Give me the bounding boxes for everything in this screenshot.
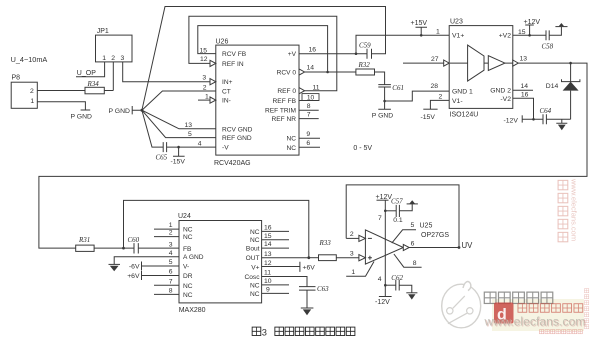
svg-text:13: 13 (520, 55, 528, 62)
svg-text:C61: C61 (392, 84, 404, 92)
svg-text:P GND: P GND (71, 114, 92, 121)
power bar P GND at node (132, 106, 140, 114)
svg-text:4: 4 (169, 250, 173, 257)
wire Bout stub pin14 (262, 247, 289, 249)
pin triangle REF IN (210, 60, 216, 66)
svg-text:10: 10 (264, 278, 272, 285)
svg-text:R33: R33 (319, 239, 332, 247)
IC U26 RCV420AG (216, 45, 299, 155)
op-amp stage 2 triangle inside U23 (488, 56, 505, 71)
power bar -12V right (521, 115, 523, 122)
resistor R33 (319, 255, 337, 261)
svg-text:14: 14 (307, 65, 315, 72)
svg-text:5: 5 (188, 131, 192, 138)
pin triangle U25 output pin6 (403, 244, 409, 250)
svg-text:C59: C59 (359, 42, 371, 50)
wire U25 pin2 (346, 237, 359, 239)
wire P8 pin2 to R34 (37, 90, 85, 92)
svg-text:RCV 0: RCV 0 (277, 70, 297, 77)
wire JP1 pin1 to U_OP (76, 62, 105, 77)
wire -V2 pin16 down (513, 98, 534, 119)
svg-text:15: 15 (264, 233, 272, 240)
power bar -12V below U25 (379, 296, 392, 298)
svg-text:www.elecfans.com: www.elecfans.com (484, 315, 586, 329)
svg-text:UV: UV (462, 241, 474, 250)
capacitor C60 (134, 243, 138, 253)
wire NC stub pin16 (262, 230, 289, 232)
svg-text:U23: U23 (450, 18, 463, 25)
svg-text:13: 13 (264, 251, 272, 258)
svg-text:2: 2 (111, 55, 115, 62)
minus sign inside U25 (368, 237, 372, 239)
ground under C64 (556, 119, 567, 123)
svg-text:+6V: +6V (303, 264, 316, 271)
svg-text:3: 3 (262, 327, 267, 337)
supply +15V (416, 27, 428, 35)
ground triangle (558, 125, 566, 131)
wire C58 to ground (549, 27, 561, 36)
svg-text:P8: P8 (12, 75, 21, 82)
svg-text:NC: NC (183, 292, 193, 299)
svg-text:C60: C60 (128, 236, 140, 244)
junction (384, 210, 387, 213)
junction (528, 34, 531, 37)
wire NC stub pin15 (262, 239, 289, 241)
wire U26 +V pin16 to C59 (299, 53, 367, 55)
wire RCV 0 to R32 (305, 71, 356, 73)
connector P8 (11, 82, 37, 108)
svg-text:REF GND: REF GND (222, 135, 252, 142)
svg-text:+15V: +15V (411, 20, 428, 27)
wire NC stub pin9 (299, 137, 320, 139)
svg-text:+12V: +12V (376, 194, 393, 201)
svg-text:7: 7 (307, 111, 311, 118)
ground triangle (408, 294, 415, 299)
capacitor C63 (299, 287, 316, 291)
svg-text:-12V: -12V (375, 299, 390, 306)
svg-text:www.elecfans.com: www.elecfans.com (570, 178, 579, 241)
IC U23 ISO124U (449, 26, 513, 109)
svg-text:NC: NC (250, 229, 260, 236)
svg-text:2: 2 (203, 85, 207, 92)
svg-text:16: 16 (264, 225, 272, 232)
svg-text:OP27GS: OP27GS (421, 232, 449, 239)
watermark elecfans logo circle (442, 282, 481, 328)
wire R31 to C60 (94, 247, 134, 249)
wire node to REF GND (142, 110, 216, 137)
wire C65 to -V pin4 (167, 146, 216, 148)
svg-text:-12V: -12V (504, 117, 519, 124)
ground P GND under C61 (378, 101, 391, 109)
IC U24 MAX280 (179, 221, 262, 303)
wire NC stub pin6 (299, 146, 320, 148)
svg-text:OUT: OUT (246, 255, 260, 262)
connector JP1 (96, 35, 133, 62)
svg-text:NC: NC (286, 136, 296, 143)
junction (383, 100, 386, 103)
wire NC stub pin9 (262, 292, 289, 294)
svg-text:DR: DR (183, 273, 193, 280)
svg-text:FB: FB (183, 246, 192, 253)
svg-text:+12V: +12V (524, 19, 541, 26)
diode D14 cathode bar (562, 63, 580, 82)
svg-text:C64: C64 (540, 107, 552, 115)
junction (307, 256, 310, 259)
svg-text:13: 13 (185, 122, 193, 129)
ground above C57 (407, 203, 418, 205)
wire node to RCV GND (142, 110, 216, 129)
svg-text:NC: NC (183, 283, 193, 290)
junction (177, 146, 180, 149)
capacitor C61 (378, 85, 391, 87)
power bar -15V under U23 (423, 108, 437, 110)
wire REF NR stub pin7 (299, 118, 319, 120)
svg-text:C58: C58 (542, 42, 554, 50)
svg-text:R32: R32 (358, 61, 371, 69)
wire REF FB stub pin10 (299, 100, 319, 102)
svg-text:8: 8 (413, 260, 417, 267)
ground under C62 (406, 292, 417, 294)
svg-text:16: 16 (521, 92, 529, 99)
junction (355, 52, 358, 55)
pin triangle RCV 0 (299, 69, 305, 75)
junction (122, 247, 125, 250)
plus sign inside U25 (368, 256, 372, 260)
svg-text:REF FB: REF FB (273, 98, 297, 105)
svg-text:2: 2 (30, 88, 34, 95)
svg-text:1: 1 (169, 222, 173, 229)
watermark gray brand text (484, 292, 552, 303)
wire JP1 pin3 to U26 IN+ (123, 62, 210, 82)
wire C61 to U23 GND1 pin28 (385, 87, 450, 101)
svg-text:V-: V- (183, 264, 189, 271)
wire C60 to U24 FB pin3 (138, 247, 179, 249)
svg-text:Cosc: Cosc (244, 274, 260, 281)
op-amp stage 1 trapezoid inside U23 (468, 45, 484, 81)
svg-text:JP1: JP1 (97, 28, 109, 35)
pin triangle IN+ (210, 79, 216, 85)
capacitor C65 (163, 142, 166, 152)
wire U23 pin27 input (403, 62, 444, 64)
wire inside U23 (450, 62, 513, 64)
svg-text:R34: R34 (87, 80, 100, 88)
pin triangle U23 pin27 (444, 60, 450, 66)
wire to C62 (385, 284, 396, 286)
wire to C57 (385, 210, 396, 212)
svg-text:6: 6 (169, 269, 173, 276)
svg-text:U24: U24 (178, 213, 191, 220)
wire REF IN feedback loop to REF 0 (189, 16, 337, 91)
wire A GND pin4 (114, 257, 179, 265)
wire C57 to ground (399, 204, 412, 211)
svg-text:7: 7 (169, 278, 173, 285)
ground above C58 (555, 26, 567, 28)
op-amp U25 triangle (365, 230, 403, 264)
wire Cosc pin11 to C63 (262, 277, 307, 287)
svg-text:6: 6 (306, 140, 310, 147)
ground triangle (559, 23, 564, 26)
wire NC stub pin7 (154, 284, 179, 286)
power bar -15V under U26 (173, 147, 185, 156)
wire U25 pin5 stub (392, 230, 416, 243)
junction pin13 to D14 (569, 62, 572, 65)
wire V+ pin12 to +6V (262, 262, 300, 272)
svg-text:-15V: -15V (171, 158, 186, 165)
svg-text:C62: C62 (391, 274, 403, 282)
svg-text:+V: +V (288, 51, 297, 58)
svg-text:NC: NC (250, 237, 260, 244)
resistor R34 (85, 87, 104, 94)
svg-text:-15V: -15V (421, 114, 436, 121)
capacitor C57 (396, 205, 399, 217)
svg-text:11: 11 (264, 270, 271, 277)
svg-text:28: 28 (431, 83, 439, 90)
wire P8 pin1 (37, 102, 85, 110)
svg-text:11: 11 (313, 84, 320, 91)
svg-text:15: 15 (200, 48, 208, 55)
svg-text:R31: R31 (78, 236, 90, 244)
wire JP1 pin2 (112, 62, 114, 91)
svg-text:U25: U25 (420, 223, 433, 230)
junction (384, 284, 387, 287)
svg-text:7: 7 (378, 215, 382, 222)
ground triangle (110, 266, 119, 271)
svg-text:1: 1 (102, 55, 106, 62)
svg-text:P GND: P GND (109, 108, 130, 115)
svg-text:CT: CT (222, 89, 231, 96)
supply +12V above U25 (377, 199, 389, 201)
svg-text:REF IN: REF IN (222, 61, 244, 68)
svg-text:REF 0: REF 0 (277, 88, 296, 95)
junction (458, 246, 461, 249)
boxed pin number 10 (302, 94, 319, 101)
resistor R31 (76, 245, 94, 251)
svg-text:14: 14 (521, 83, 529, 90)
ground under C63 (301, 290, 314, 308)
svg-text:2: 2 (350, 231, 354, 238)
ground triangle (410, 200, 415, 203)
wire bypass loop to R33 node (124, 200, 309, 257)
svg-text:C63: C63 (317, 285, 329, 293)
wire U25 output to UV (409, 247, 459, 249)
svg-text:U_4~10mA: U_4~10mA (11, 55, 48, 64)
svg-text:U26: U26 (216, 38, 229, 45)
wire R32 to C61 (375, 72, 385, 85)
svg-text:U_OP: U_OP (77, 70, 96, 77)
watermark red dz square (494, 303, 514, 324)
wire U25 pin1 stub (346, 262, 374, 277)
wire U23 V1- pin2 to -15V (430, 100, 449, 109)
watermark vertical pink column (558, 180, 568, 241)
svg-text:-6V: -6V (129, 264, 140, 271)
svg-text:+V2: +V2 (499, 32, 512, 39)
svg-text:1: 1 (30, 98, 34, 105)
svg-text:0.1: 0.1 (393, 217, 403, 224)
svg-text:IN+: IN+ (222, 79, 233, 86)
svg-text:-V2: -V2 (500, 96, 511, 103)
svg-text:5: 5 (169, 259, 173, 266)
svg-text:16: 16 (309, 47, 317, 54)
svg-text:V1-: V1- (452, 98, 463, 105)
wire NC stub pin8 (154, 293, 179, 295)
wire RCV FB loop to RCV 0 (198, 26, 328, 72)
wire C62 to ground (399, 285, 412, 293)
ground A GND (109, 263, 121, 265)
wire R33 to U25 pin3 (336, 257, 359, 259)
pin triangle REF 0 (299, 88, 305, 94)
svg-text:10: 10 (307, 95, 315, 102)
svg-text:RCV420AG: RCV420AG (214, 160, 251, 167)
wire IN- stub (198, 99, 210, 101)
svg-text:C65: C65 (156, 154, 168, 162)
svg-text:9: 9 (306, 131, 310, 138)
resistor R32 (356, 69, 375, 75)
svg-text:RCV FB: RCV FB (222, 51, 247, 58)
svg-text:REF TRIM: REF TRIM (265, 108, 296, 115)
wire node to top loop and C59 (142, 7, 386, 111)
feedback wire U25 pin2 to output (346, 185, 459, 248)
svg-text:27: 27 (431, 56, 439, 63)
wire +V2 pin15 to C58 (513, 34, 546, 36)
svg-text:2: 2 (439, 94, 443, 101)
svg-text:-V: -V (222, 145, 229, 152)
svg-text:0 - 5V: 0 - 5V (353, 145, 372, 152)
svg-text:3: 3 (350, 250, 354, 257)
svg-text:1: 1 (205, 93, 209, 100)
caption: fig3 voltage signal conditioning branch (252, 327, 261, 335)
watermark red overlay text (518, 304, 583, 313)
svg-text:NC: NC (183, 227, 193, 234)
watermark red slogan (539, 330, 582, 334)
junction (326, 71, 329, 74)
wire node to R33 (309, 257, 319, 259)
ground P GND under P8 (81, 109, 91, 111)
watermark beige panel (492, 299, 584, 331)
wire OUT pin13 to R33 node (262, 257, 309, 259)
svg-text:9: 9 (266, 287, 270, 294)
wire REF TRIM stub pin8 (299, 109, 319, 111)
svg-text:+6V: +6V (127, 273, 140, 280)
capacitor C62 (396, 280, 399, 291)
svg-text:C57: C57 (391, 198, 403, 206)
svg-text:A GND: A GND (183, 254, 204, 261)
wire GND2 pin14 stub (513, 89, 533, 91)
svg-text:P GND: P GND (372, 112, 393, 119)
svg-text:NC: NC (183, 234, 193, 241)
svg-text:3: 3 (121, 55, 125, 62)
svg-text:14: 14 (264, 241, 272, 248)
wire node to C65 (142, 110, 163, 147)
svg-text:3: 3 (169, 242, 173, 249)
wire U23 pin13 long loop to R31 (39, 63, 587, 248)
svg-text:D14: D14 (546, 83, 559, 90)
svg-text:MAX280: MAX280 (179, 307, 206, 314)
diode D14 body (563, 82, 579, 91)
supply +12V above U23 (525, 25, 534, 35)
wire U25 pin8 stub (394, 254, 422, 267)
svg-text:V+: V+ (251, 264, 259, 271)
node P GND junction (140, 109, 143, 112)
wire D14 anode (570, 91, 572, 120)
wire +15V rail to U23 pin1 (356, 35, 449, 53)
wire NC stub pin10 (262, 284, 289, 286)
pin triangle U23 pin13 output (513, 60, 519, 66)
capacitor C59 (367, 49, 372, 59)
capacitor C58 (546, 30, 549, 40)
wire V+ pin7 / V- pin4 stem (384, 200, 386, 296)
svg-text:NC: NC (250, 291, 260, 298)
svg-text:4: 4 (198, 141, 202, 148)
svg-text:1: 1 (351, 269, 355, 276)
wire NC stub pin2 (154, 236, 179, 238)
svg-text:GND 1: GND 1 (452, 89, 473, 96)
svg-text:Bout: Bout (246, 246, 260, 253)
svg-text:5: 5 (411, 222, 415, 229)
svg-text:NC: NC (250, 282, 260, 289)
junction (420, 34, 423, 37)
watermark right edge red strip (584, 289, 588, 329)
svg-text:4: 4 (378, 276, 382, 283)
svg-text:NC: NC (286, 145, 296, 152)
svg-text:12: 12 (264, 260, 272, 267)
wire V- pin5 to -6V (142, 262, 180, 271)
pin triangle U25 pin2 (359, 235, 366, 241)
svg-text:8: 8 (169, 288, 173, 295)
svg-text:IN-: IN- (222, 98, 231, 105)
svg-text:15: 15 (518, 29, 526, 36)
wire node to CT (142, 91, 216, 110)
svg-text:1: 1 (436, 29, 440, 36)
svg-text:V1+: V1+ (452, 32, 464, 39)
svg-text:REF NR: REF NR (271, 116, 296, 123)
wire R34 to JP1 pin2 (104, 90, 113, 92)
svg-text:GND 2: GND 2 (490, 88, 511, 95)
svg-text:6: 6 (411, 240, 415, 247)
svg-text:RCV GND: RCV GND (222, 126, 253, 133)
svg-text:3: 3 (202, 75, 206, 82)
svg-text:ISO124U: ISO124U (450, 112, 479, 119)
wire DR pin6 to +6V (142, 271, 180, 280)
svg-text:2: 2 (169, 230, 173, 237)
junction (532, 118, 535, 121)
wire NC stub pin1 (154, 228, 179, 230)
svg-text:8: 8 (307, 103, 311, 110)
pin triangle IN- (210, 97, 216, 103)
wire -12V to C64 to D14 (522, 118, 570, 120)
svg-text:12: 12 (200, 56, 208, 63)
ground triangle (303, 309, 311, 315)
pin triangle U25 pin3 (359, 255, 366, 261)
capacitor C64 (543, 114, 546, 124)
